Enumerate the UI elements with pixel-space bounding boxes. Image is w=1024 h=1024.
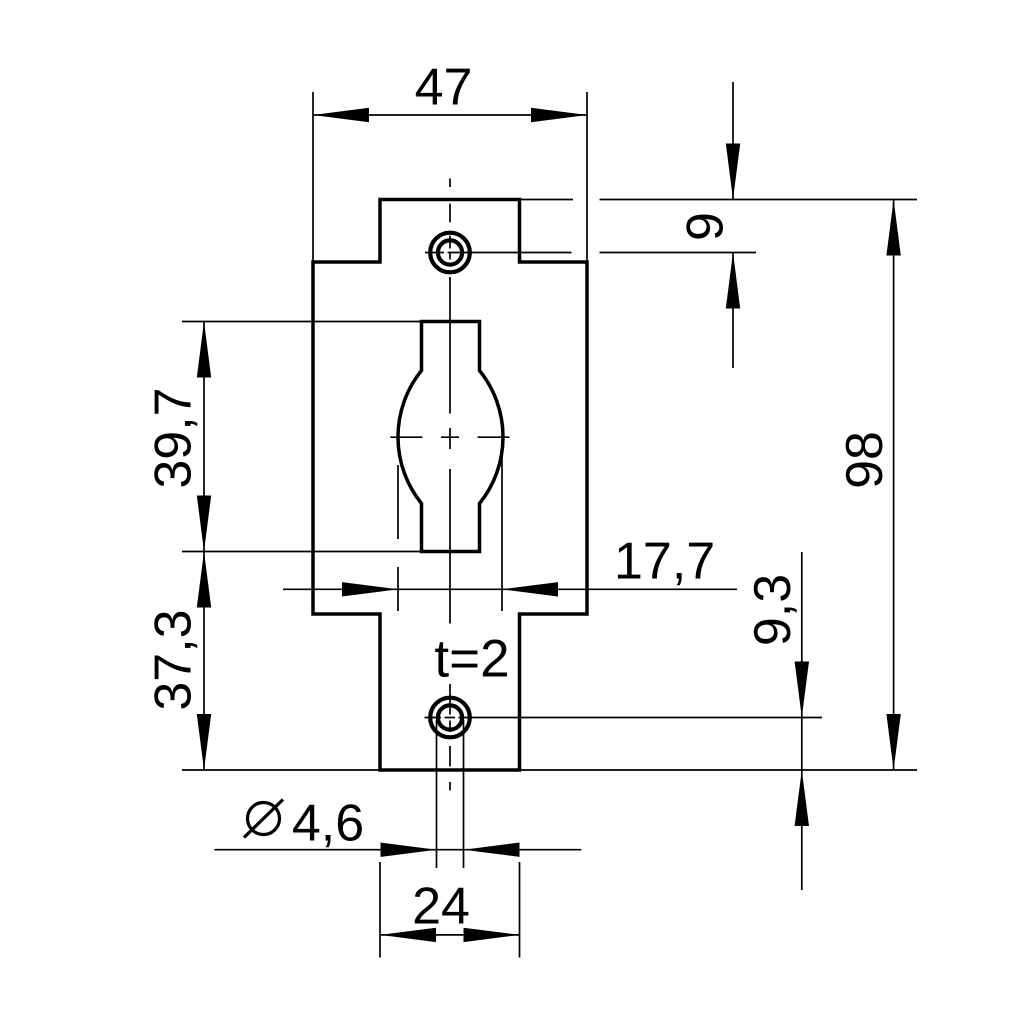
dim 24 line [380,934,520,936]
dim 4,6 line [214,849,581,851]
svg-text:9: 9 [677,212,735,241]
svg-text:47: 47 [415,59,473,117]
diameter symbol [244,800,283,838]
dim 47 arrows [313,108,369,122]
dim 9,3 arrows [795,662,809,718]
svg-text:39,7: 39,7 [145,387,203,488]
bulge horizontal centerline [391,436,510,438]
svg-text:98: 98 [836,431,894,489]
slot top extension line [182,321,422,323]
top hole horizontal centerline [425,252,756,254]
dim 17,7 arrows [342,582,398,596]
dim 47 extension lines [312,92,314,262]
dim 17,7 extension lines [398,448,502,611]
dim 9 arrows [726,144,740,200]
svg-text:t=2: t=2 [434,630,509,689]
plate outline [313,200,587,771]
dim 4,6 extension lines [437,720,464,868]
top hole inner circle [438,240,462,264]
keyhole cutout [398,322,503,552]
bottom hole inner circle [438,705,462,729]
top hole outer circle [430,233,470,273]
svg-text:24: 24 [412,878,470,936]
dim 24 arrows [380,928,436,942]
bottom edge extension line [182,769,917,771]
dim 37,3 arrows [197,552,211,608]
svg-text:37,3: 37,3 [145,609,203,710]
top edge extension line right [520,199,918,201]
bottom hole outer circle [430,698,470,738]
dim 24 extension lines [380,862,520,958]
svg-text:17,7: 17,7 [614,533,715,591]
svg-text:4,6: 4,6 [292,795,364,853]
dim 9,3 line [801,552,803,890]
dim 39,7 / 37,3 line [203,322,205,771]
dim 39,7 arrows [197,322,211,378]
dim 17,7 line [283,588,737,590]
dim 9 line [732,82,734,200]
dim 98 line [893,200,895,771]
dim 47 line [313,114,587,116]
dim 4,6 arrows [381,843,437,857]
slot bottom extension line [182,551,422,553]
dim 98 arrows [886,200,900,256]
svg-text:9,3: 9,3 [744,574,802,646]
vertical centerline [449,179,451,791]
bottom hole horizontal centerline [425,717,823,719]
